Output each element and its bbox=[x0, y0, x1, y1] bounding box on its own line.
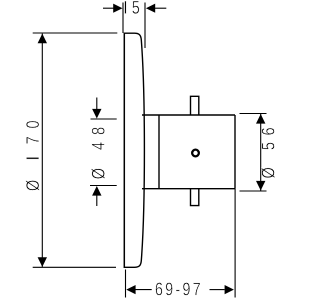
dim 69-97 left arrow bbox=[126, 285, 135, 294]
label O170 bbox=[26, 121, 39, 191]
label 69-97 bbox=[156, 283, 200, 296]
housing box top edge bbox=[142, 114, 235, 116]
dim 48 bottom extension line bbox=[90, 185, 117, 187]
dim 69-97 left tail bbox=[135, 289, 152, 291]
dim 15 extension line right bbox=[144, 3, 146, 49]
dim 15 right arrow bbox=[146, 4, 155, 13]
dim 56 vertical line bbox=[260, 114, 262, 191]
label 15 bbox=[125, 1, 140, 14]
top spindle bbox=[191, 96, 199, 115]
dim 69-97 right extension line bbox=[234, 189, 236, 298]
label O56 bbox=[261, 128, 275, 178]
dim 15 left tail bbox=[103, 7, 115, 9]
dim 48 bottom arrow tail bbox=[96, 196, 98, 207]
dim 15 right tail bbox=[155, 7, 167, 9]
dim 69-97 left extension line bbox=[125, 270, 127, 298]
dim 170 vertical line bbox=[41, 34, 43, 267]
dim 56 bottom extension line bbox=[240, 190, 267, 192]
dim 170 bottom arrow bbox=[38, 257, 47, 267]
dim 48 top extension line bbox=[91, 118, 117, 120]
dim 170 bottom extension line bbox=[33, 266, 116, 268]
dim 15 extension line left bbox=[122, 3, 124, 34]
dim 69-97 right tail bbox=[210, 289, 225, 291]
dim 69-97 right arrow bbox=[225, 285, 234, 294]
center screw circle bbox=[192, 150, 199, 157]
label O48 bbox=[91, 128, 105, 179]
escutcheon plate left edge bbox=[123, 33, 125, 268]
dim 56 bottom arrow bbox=[256, 181, 265, 191]
dim 170 top extension line bbox=[33, 32, 118, 34]
dim 48 top arrow bbox=[92, 109, 101, 119]
housing box right edge bbox=[234, 115, 236, 189]
bottom spindle bbox=[191, 189, 199, 206]
dim 15 left arrow bbox=[113, 4, 122, 13]
housing box left edge bbox=[158, 115, 160, 189]
dim 48 top arrow tail bbox=[96, 98, 98, 111]
dim 56 top arrow bbox=[256, 114, 265, 124]
dim 170 top arrow bbox=[38, 34, 47, 44]
dim 48 bottom arrow bbox=[92, 186, 101, 196]
housing box bottom edge bbox=[142, 188, 235, 190]
escutcheon plate outline bbox=[124, 33, 144, 267]
dim 56 top extension line bbox=[240, 113, 267, 115]
